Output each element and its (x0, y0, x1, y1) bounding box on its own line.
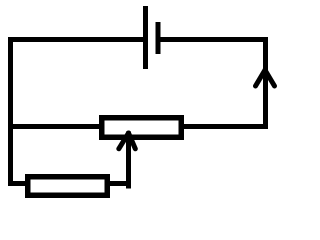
wire: middle horizontal segment (8, 124, 268, 129)
battery B1 short plate (-) (156, 22, 161, 54)
battery B1 long plate (+) (143, 6, 148, 69)
current direction arrow on right wire (256, 70, 275, 86)
wire: right vertical segment (263, 37, 268, 129)
wire: wiper vertical segment (126, 132, 131, 189)
wire: left vertical segment (8, 37, 13, 186)
wiper arrow of potentiometer R1 (119, 133, 136, 149)
wire: bottom-right stub from resistor R2 to wiper wire (105, 181, 131, 186)
wire: top-right horizontal segment from battery to right corner (161, 37, 269, 42)
wire: bottom-left stub from left wire to resistor R2 (8, 181, 30, 186)
resistor R2 body (28, 177, 108, 196)
wire: top-left horizontal segment from left corner to battery (8, 37, 143, 42)
potentiometer R1 body (102, 118, 182, 138)
